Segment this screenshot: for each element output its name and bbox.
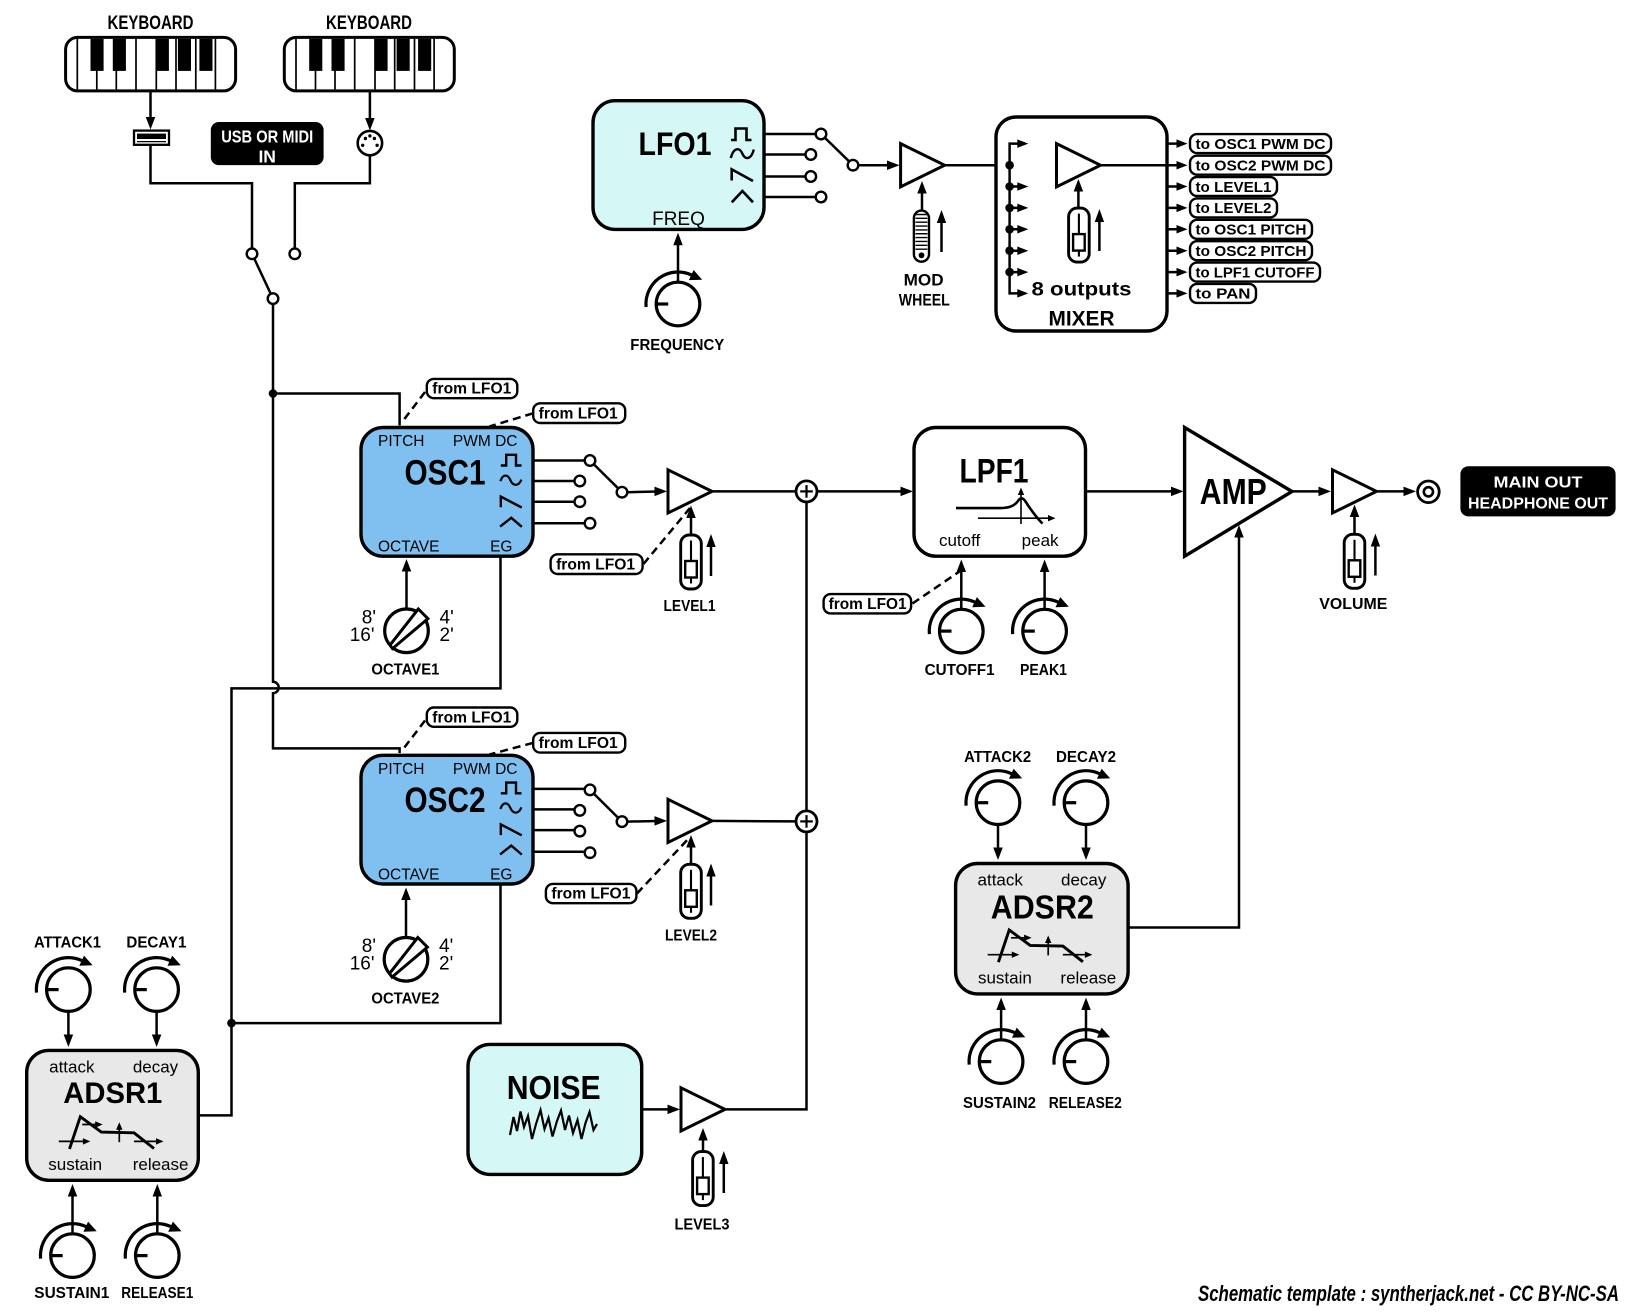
- OCTAVE1 control arrow: [402, 559, 412, 608]
- junction pitch branch: [269, 389, 278, 398]
- SUSTAIN2 knob: [969, 1028, 1025, 1084]
- from LFO1 label to LEVEL2: [546, 884, 637, 903]
- LEVEL1 slider: [681, 535, 702, 589]
- LFO1 output stubs: [764, 134, 816, 197]
- LEVEL3 up arrow: [719, 1151, 728, 1193]
- mixer amp: [1057, 144, 1101, 187]
- svg-text:KEYBOARD: KEYBOARD: [108, 13, 194, 34]
- svg-text:16': 16': [350, 625, 375, 646]
- LEVEL3 slider: [693, 1152, 714, 1206]
- PEAK1 knob: [1013, 597, 1069, 653]
- svg-text:PWM DC: PWM DC: [453, 761, 518, 778]
- wire LEVEL1 amp to sum1: [712, 490, 796, 493]
- mod wheel up arrow: [937, 210, 946, 252]
- ATTACK1 knob: [36, 956, 92, 1012]
- svg-text:DECAY1: DECAY1: [126, 935, 186, 952]
- svg-text:to PAN: to PAN: [1196, 286, 1251, 303]
- ADSR1 block: [27, 1050, 199, 1180]
- from LFO1 label to OSC1 pwm: [533, 403, 625, 423]
- OSC1 output stubs: [533, 461, 585, 524]
- svg-text:ATTACK2: ATTACK2: [964, 749, 1031, 766]
- svg-text:OCTAVE: OCTAVE: [378, 866, 439, 883]
- OSC2 wave selector switch: [575, 785, 628, 858]
- from LFO1 label to LEVEL1: [551, 554, 643, 574]
- CUTOFF1 control arrow: [957, 560, 967, 609]
- mixer level slider: [1069, 208, 1090, 262]
- from LFO1 label to OSC2 pitch: [427, 708, 518, 727]
- wire sum1 to sum2: [805, 502, 808, 811]
- mixer slider up arrow: [1095, 209, 1104, 251]
- keyboard 2 icon: [284, 37, 454, 91]
- svg-text:attack: attack: [49, 1058, 95, 1077]
- LEVEL2 amp: [668, 799, 712, 842]
- svg-text:sustain: sustain: [48, 1155, 102, 1174]
- LEVEL2 control arrow: [686, 835, 696, 864]
- wire LPF1 to AMP: [1086, 487, 1184, 497]
- wire OSC1 switch to LEVEL1 amp: [627, 487, 667, 497]
- svg-text:PITCH: PITCH: [378, 761, 425, 778]
- wire mixer slider control arrow: [1074, 179, 1084, 208]
- svg-text:SUSTAIN1: SUSTAIN1: [34, 1285, 109, 1302]
- svg-text:MIXER: MIXER: [1049, 306, 1115, 330]
- svg-text:LEVEL1: LEVEL1: [664, 598, 716, 615]
- FREQUENCY control arrow: [673, 233, 683, 282]
- svg-text:KEYBOARD: KEYBOARD: [326, 13, 412, 34]
- svg-text:release: release: [133, 1155, 189, 1174]
- OSC1 wave selector switch: [575, 455, 628, 528]
- svg-text:decay: decay: [133, 1058, 179, 1077]
- wire keyboard trunk with hop over EG line: [273, 304, 400, 753]
- svg-text:USB OR MIDI: USB OR MIDI: [221, 127, 313, 147]
- svg-text:EG: EG: [490, 866, 512, 883]
- svg-text:NOISE: NOISE: [507, 1069, 601, 1106]
- wire ADSR2 to AMP: [1128, 525, 1243, 928]
- svg-text:Schematic template : syntherja: Schematic template : syntherjack.net - C…: [1198, 1281, 1619, 1306]
- wire keyboard2 to MIDI plug: [365, 91, 375, 131]
- LEVEL2 slider: [681, 864, 702, 918]
- ADSR2 block: [956, 864, 1129, 994]
- svg-text:OSC2: OSC2: [405, 781, 486, 820]
- svg-text:WHEEL: WHEEL: [899, 291, 950, 310]
- svg-text:8 outputs: 8 outputs: [1032, 280, 1132, 301]
- OCTAVE1 knob: [385, 609, 429, 653]
- svg-text:VOLUME: VOLUME: [1319, 596, 1387, 613]
- volume amp: [1333, 470, 1377, 513]
- svg-text:2': 2': [439, 954, 453, 975]
- svg-text:LEVEL2: LEVEL2: [665, 928, 717, 945]
- wire mod amp to mixer amp: [945, 160, 1054, 170]
- ADSR2 envelope icon: [988, 930, 1093, 962]
- MOD WHEEL icon: [914, 211, 929, 262]
- LEVEL1 up arrow: [706, 534, 715, 576]
- svg-text:FREQUENCY: FREQUENCY: [630, 337, 725, 354]
- OSC2 output stubs: [533, 789, 585, 852]
- destination label to OSC1 PWM DC: [1190, 134, 1331, 153]
- ATTACK2 knob: [966, 769, 1022, 825]
- svg-text:to LEVEL1: to LEVEL1: [1196, 179, 1272, 196]
- RELEASE2 knob: [1054, 1028, 1110, 1084]
- svg-text:peak: peak: [1022, 531, 1059, 550]
- svg-text:to OSC2 PITCH: to OSC2 PITCH: [1196, 243, 1307, 260]
- DECAY2 control arrow: [1081, 825, 1091, 860]
- svg-text:MOD: MOD: [904, 271, 944, 290]
- dashed wire from LFO1 to OSC2 pwm: [490, 743, 534, 755]
- LEVEL3 control arrow: [698, 1128, 708, 1152]
- svg-text:RELEASE1: RELEASE1: [121, 1285, 193, 1302]
- OCTAVE2 tick labels: [350, 936, 453, 975]
- dashed wire from LFO1 to LEVEL1: [644, 508, 691, 564]
- CUTOFF1 knob: [929, 597, 985, 653]
- destination label to OSC2 PITCH: [1190, 241, 1312, 260]
- svg-text:to OSC2 PWM DC: to OSC2 PWM DC: [1196, 158, 1326, 175]
- dashed wire from LFO1 to CUTOFF1: [913, 572, 960, 604]
- keyboard source selector switch: [247, 249, 300, 304]
- wire MIDI plug to switch contact: [295, 155, 370, 248]
- from LFO1 label to CUTOFF1: [824, 594, 912, 613]
- svg-text:from LFO1: from LFO1: [551, 886, 630, 903]
- svg-text:OCTAVE1: OCTAVE1: [371, 662, 439, 679]
- svg-text:OCTAVE2: OCTAVE2: [371, 991, 439, 1008]
- LEVEL2 up arrow: [706, 864, 715, 906]
- svg-text:to OSC1 PITCH: to OSC1 PITCH: [1196, 222, 1307, 239]
- LEVEL1 control arrow: [686, 506, 696, 535]
- svg-text:to LPF1 CUTOFF: to LPF1 CUTOFF: [1196, 264, 1315, 281]
- svg-text:DECAY2: DECAY2: [1056, 749, 1116, 766]
- svg-text:PEAK1: PEAK1: [1020, 662, 1067, 679]
- LFO1 block: [593, 101, 764, 230]
- wire NOISE to LEVEL3 amp: [642, 1105, 680, 1115]
- RELEASE1 knob: [125, 1222, 181, 1278]
- from LFO1 label to OSC1 pitch: [427, 379, 518, 398]
- svg-text:FREQ: FREQ: [652, 209, 705, 230]
- svg-text:release: release: [1060, 969, 1116, 988]
- svg-text:ADSR2: ADSR2: [991, 889, 1094, 926]
- svg-text:attack: attack: [978, 870, 1024, 889]
- LEVEL3 amp: [681, 1088, 725, 1131]
- svg-text:ATTACK1: ATTACK1: [34, 935, 101, 952]
- OSC2 block: [361, 755, 533, 884]
- RELEASE1 control arrow: [153, 1184, 163, 1233]
- wire EG bus (ADSR1 to OSC1/OSC2 EG): [198, 556, 500, 1115]
- svg-text:AMP: AMP: [1200, 471, 1267, 512]
- svg-text:LEVEL3: LEVEL3: [675, 1217, 730, 1234]
- svg-text:ADSR1: ADSR1: [63, 1077, 162, 1110]
- wire EG branch to OSC2: [232, 884, 501, 1023]
- wire mixer amp to output: [1101, 164, 1168, 167]
- svg-text:PWM DC: PWM DC: [453, 433, 518, 450]
- svg-text:2': 2': [440, 625, 454, 646]
- OCTAVE2 control arrow: [401, 888, 411, 937]
- svg-text:16': 16': [350, 954, 375, 975]
- MIDI DIN connector icon: [358, 131, 382, 155]
- wire USB plug to switch contact: [151, 145, 253, 249]
- svg-text:RELEASE2: RELEASE2: [1049, 1095, 1122, 1112]
- from LFO1 label to OSC2 pwm: [533, 733, 625, 753]
- SUSTAIN2 control arrow: [996, 998, 1006, 1040]
- black label MAIN OUT HEADPHONE OUT: [1460, 466, 1615, 516]
- wire noise to sum2: [725, 832, 807, 1109]
- svg-text:MAIN OUT: MAIN OUT: [1494, 475, 1583, 492]
- USB plug icon: [134, 131, 169, 145]
- wire mod wheel control arrow: [917, 181, 927, 210]
- destination label to PAN: [1190, 284, 1256, 303]
- MIXER block: [996, 117, 1167, 331]
- svg-text:from LFO1: from LFO1: [432, 709, 511, 726]
- svg-text:from LFO1: from LFO1: [556, 556, 635, 573]
- svg-text:decay: decay: [1061, 870, 1107, 889]
- DECAY1 knob: [125, 956, 181, 1012]
- svg-text:to OSC1 PWM DC: to OSC1 PWM DC: [1196, 136, 1326, 153]
- DECAY1 control arrow: [152, 1012, 162, 1047]
- VOLUME control arrow: [1350, 505, 1360, 534]
- destination label to OSC1 PITCH: [1190, 220, 1312, 239]
- LEVEL1 amp: [668, 470, 712, 513]
- svg-text:from LFO1: from LFO1: [829, 596, 907, 613]
- wire LEVEL2 amp to sum2: [712, 820, 796, 823]
- svg-text:IN: IN: [258, 147, 276, 167]
- mixer distribution bus: [1005, 139, 1028, 297]
- ATTACK1 control arrow: [64, 1012, 74, 1047]
- sum junction 2: [796, 811, 817, 832]
- destination label to LPF1 CUTOFF: [1190, 263, 1320, 282]
- svg-text:to LEVEL2: to LEVEL2: [1196, 200, 1272, 217]
- MOD WHEEL label: [899, 271, 950, 310]
- svg-text:from LFO1: from LFO1: [539, 405, 618, 422]
- destination label to LEVEL2: [1190, 198, 1277, 217]
- wire OSC2 switch to LEVEL2 amp: [627, 816, 667, 826]
- svg-text:CUTOFF1: CUTOFF1: [925, 662, 995, 679]
- LFO mod amp: [901, 144, 945, 187]
- LFO1 wave selector switch: [806, 129, 859, 203]
- destination label to LEVEL1: [1190, 177, 1277, 196]
- wire keyboard1 to USB plug: [146, 91, 156, 130]
- OCTAVE2 knob: [384, 938, 428, 982]
- ADSR1 envelope icon: [59, 1117, 164, 1149]
- NOISE block: [468, 1044, 642, 1174]
- wire sum1 to LPF1: [817, 487, 913, 497]
- black label USB OR MIDI IN: [211, 122, 324, 167]
- svg-text:HEADPHONE OUT: HEADPHONE OUT: [1468, 496, 1608, 513]
- svg-text:EG: EG: [490, 539, 512, 556]
- svg-text:LPF1: LPF1: [960, 452, 1029, 490]
- svg-text:sustain: sustain: [978, 969, 1032, 988]
- AMP block: [1185, 428, 1292, 557]
- wire LFO switch to mod amp: [858, 160, 899, 170]
- dashed wire from LFO1 to OSC1 pwm: [490, 413, 534, 426]
- LPF1 block: [914, 428, 1086, 557]
- VOLUME up arrow: [1371, 534, 1380, 576]
- svg-text:from LFO1: from LFO1: [539, 735, 618, 752]
- FREQUENCY knob: [646, 270, 702, 326]
- RELEASE2 control arrow: [1081, 998, 1091, 1040]
- svg-text:OSC1: OSC1: [405, 453, 486, 492]
- PEAK1 control arrow: [1040, 560, 1050, 609]
- wire volume amp to output jack: [1377, 487, 1417, 497]
- junction EG branch: [227, 1019, 236, 1028]
- VOLUME slider: [1344, 534, 1365, 588]
- SUSTAIN1 knob: [40, 1222, 96, 1278]
- output jack: [1418, 481, 1440, 503]
- sum junction 1: [796, 481, 817, 502]
- wire AMP to volume amp: [1292, 487, 1331, 497]
- keyboard 1 icon: [66, 37, 236, 91]
- OCTAVE1 tick labels: [350, 608, 454, 647]
- svg-text:LFO1: LFO1: [639, 126, 712, 162]
- ATTACK2 control arrow: [993, 825, 1003, 860]
- svg-text:from LFO1: from LFO1: [432, 381, 511, 398]
- dashed wire from LFO1 to OSC2 pitch: [403, 721, 426, 751]
- dashed wire from LFO1 to OSC1 pitch: [403, 392, 426, 422]
- svg-text:SUSTAIN2: SUSTAIN2: [963, 1095, 1036, 1112]
- svg-text:cutoff: cutoff: [939, 531, 981, 550]
- DECAY2 knob: [1054, 769, 1110, 825]
- dashed wire from LFO1 to LEVEL2: [637, 837, 690, 894]
- SUSTAIN1 control arrow: [68, 1184, 78, 1233]
- svg-text:OCTAVE: OCTAVE: [378, 539, 439, 556]
- destination label to OSC2 PWM DC: [1190, 156, 1331, 175]
- wire branch to OSC1 PITCH: [273, 394, 400, 426]
- mixer output arrows: [1167, 139, 1188, 297]
- svg-text:PITCH: PITCH: [378, 433, 425, 450]
- OSC1 block: [361, 428, 533, 557]
